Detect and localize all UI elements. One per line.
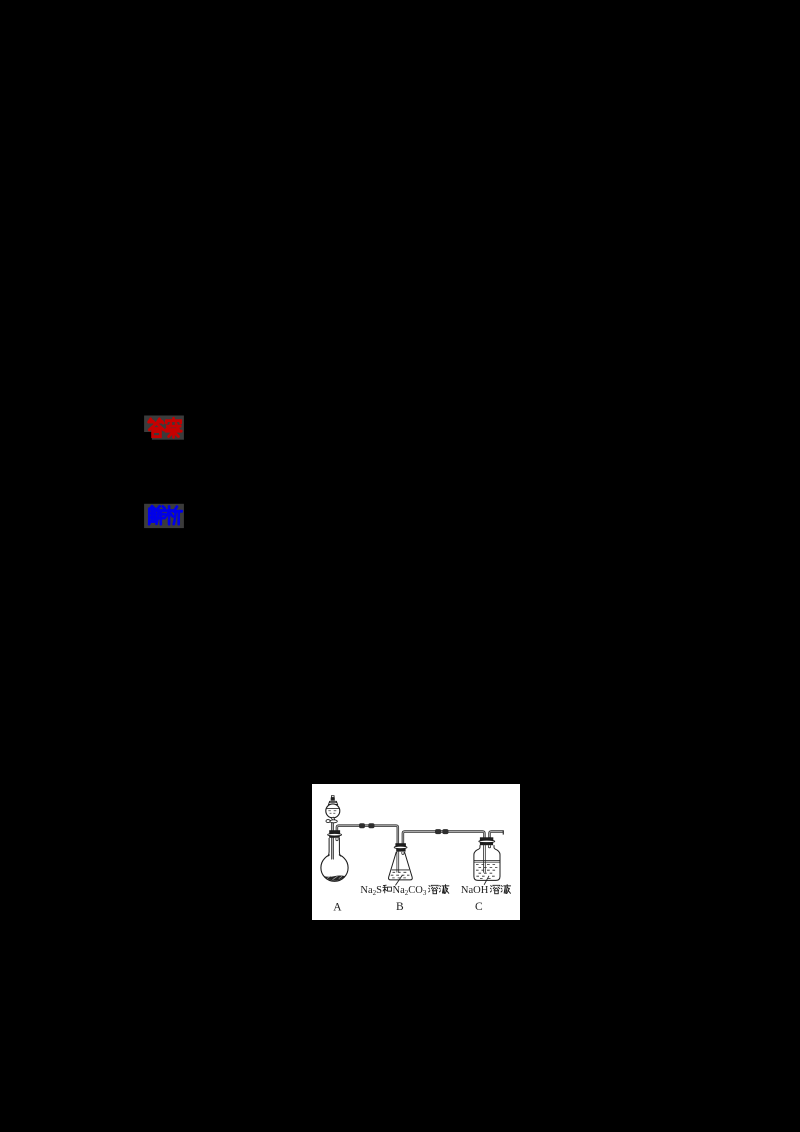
light core of tube A-B bbox=[337, 826, 398, 872]
svg-text:Na2CO3: Na2CO3 bbox=[393, 885, 427, 897]
flask A neck (white over bulb top) bbox=[330, 838, 339, 858]
svg-text:B: B bbox=[396, 901, 404, 913]
flask B liquid line bbox=[392, 869, 410, 871]
flask A dark liquid at bulb bottom bbox=[324, 876, 345, 881]
highlight box step (second line) red marker bbox=[152, 432, 184, 440]
outlet stub inside flask A neck bbox=[336, 838, 338, 841]
funnel stopcock barrel bbox=[330, 820, 337, 823]
light core of bottle C outlet bbox=[490, 832, 503, 838]
svg-text:NaOH: NaOH bbox=[461, 885, 489, 896]
flask B liquid dashes bbox=[391, 872, 410, 878]
red marker text 答案 bbox=[149, 418, 182, 437]
bottle C liquid double line bbox=[474, 861, 500, 863]
flask A bulb bbox=[321, 854, 348, 881]
outlet tube end tick bbox=[502, 830, 504, 834]
funnel stopcock handle bbox=[326, 820, 330, 823]
flask A rubber stopper bbox=[329, 830, 340, 834]
bottle C rubber stopper bbox=[480, 837, 493, 840]
svg-text:A: A bbox=[333, 901, 342, 913]
dropping funnel bulb bbox=[326, 804, 340, 818]
highlight box behind red marker bbox=[144, 416, 184, 433]
outlet tube B to C bbox=[403, 832, 485, 873]
funnel liquid level + dashes bbox=[326, 807, 339, 809]
outlet tube of bottle C bbox=[490, 832, 504, 838]
tube from funnel stem down into flask A bbox=[332, 823, 334, 860]
label under C: NaOH solution bbox=[461, 885, 511, 897]
inlet tube into bottle C (below stopper) bbox=[484, 845, 486, 873]
flask B rubber stopper bbox=[395, 843, 406, 847]
white figure panel bbox=[312, 784, 520, 920]
gas outlet tube A to B bbox=[337, 826, 398, 873]
svg-text:C: C bbox=[475, 901, 483, 913]
label under B: Na2S and Na2CO3 solution bbox=[360, 885, 449, 898]
pointer line to label C bbox=[484, 876, 489, 885]
highlight box behind blue marker bbox=[144, 504, 184, 528]
rubber connector pair on tube B-C bbox=[435, 829, 441, 834]
pointer line to label B bbox=[395, 875, 402, 885]
dropping funnel top knob bbox=[331, 796, 334, 798]
outlet stub inside flask B bbox=[402, 852, 404, 855]
funnel stopcock slant bbox=[331, 817, 335, 820]
rubber connector pair on tube A-B bbox=[359, 823, 365, 828]
bottle C body bbox=[474, 845, 500, 880]
outlet stub inside bottle C bbox=[488, 845, 490, 848]
dropping funnel collar bbox=[329, 801, 338, 804]
svg-text:Na2S: Na2S bbox=[360, 885, 382, 897]
blue marker text 解析 bbox=[149, 506, 182, 524]
light core of tube B-C bbox=[403, 832, 485, 873]
tube A-B lower part into liquid (drawn above dashes) bbox=[397, 852, 399, 873]
bottle C liquid dashes bbox=[476, 865, 497, 879]
flask B body bbox=[389, 852, 413, 880]
